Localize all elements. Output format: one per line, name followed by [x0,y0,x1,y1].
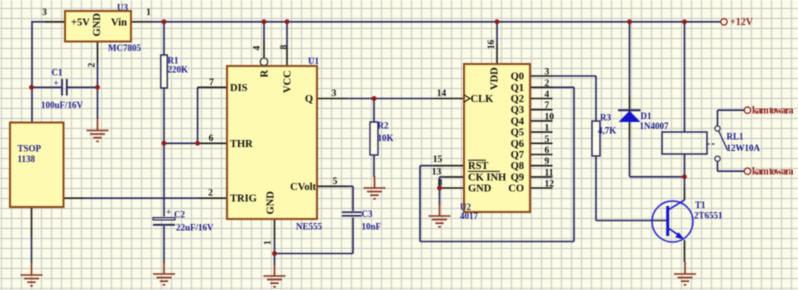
svg-text:220K: 220K [168,65,189,75]
svg-text:CLK: CLK [471,94,495,105]
svg-text:1: 1 [545,124,550,134]
svg-text:7: 7 [209,78,214,88]
svg-text:2: 2 [208,189,213,199]
svg-text:3: 3 [545,68,550,78]
svg-text:Q8: Q8 [511,161,524,172]
svg-text:5: 5 [545,135,550,145]
svg-text:kam towara: kam towara [752,106,794,117]
svg-text:7: 7 [545,101,550,111]
svg-text:16: 16 [487,40,497,50]
svg-text:C2: C2 [174,210,185,220]
svg-text:D1: D1 [641,111,652,121]
svg-text:3: 3 [42,8,47,18]
svg-text:+5V: +5V [71,18,90,29]
svg-text:CVolt: CVolt [290,182,316,193]
svg-text:CK INH: CK INH [468,172,506,183]
svg-text:NE555: NE555 [296,222,323,232]
svg-text:1: 1 [264,240,274,245]
svg-text:6: 6 [209,134,214,144]
svg-text:1138: 1138 [18,154,36,164]
svg-text:8: 8 [438,179,443,189]
svg-text:4,7K: 4,7K [598,126,616,136]
svg-text:+12V: +12V [730,17,754,28]
svg-text:Q5: Q5 [511,128,524,139]
svg-text:Q1: Q1 [511,83,524,94]
svg-text:11: 11 [545,168,554,178]
svg-text:14: 14 [437,89,447,99]
svg-text:+: + [54,78,59,88]
svg-text:GND: GND [266,191,277,215]
svg-text:15: 15 [433,155,443,165]
svg-text:T1: T1 [695,200,706,210]
svg-text:4: 4 [545,90,550,100]
svg-text:2: 2 [88,63,98,68]
svg-text:8: 8 [280,45,290,50]
svg-text:DIS: DIS [230,83,248,94]
svg-text:Vin: Vin [111,18,127,29]
svg-text:MC7805: MC7805 [108,43,141,53]
svg-text:10: 10 [545,112,555,122]
svg-text:CO: CO [508,184,524,195]
svg-text:kam towara: kam towara [752,167,794,178]
svg-text:6: 6 [545,146,550,156]
svg-text:12: 12 [545,180,555,190]
svg-text:Q0: Q0 [511,72,524,83]
svg-text:Q4: Q4 [511,116,525,127]
svg-text:GND: GND [468,184,492,195]
svg-text:VDD: VDD [490,67,501,90]
svg-text:12W10A: 12W10A [727,143,761,153]
svg-text:U1: U1 [308,56,319,66]
svg-text:GND: GND [92,13,103,37]
svg-text:VCC: VCC [283,70,294,93]
svg-text:22uF/16V: 22uF/16V [176,223,214,233]
svg-text:1N4007: 1N4007 [640,121,669,131]
svg-text:2T6551: 2T6551 [694,211,723,221]
svg-text:Q9: Q9 [511,172,524,183]
svg-text:R2: R2 [378,121,389,131]
svg-text:TSOP: TSOP [18,144,42,154]
svg-text:Q3: Q3 [511,105,524,116]
svg-text:10nF: 10nF [362,222,382,232]
svg-text:+: + [166,207,171,217]
svg-text:C3: C3 [362,209,373,219]
svg-text:Q7: Q7 [511,150,524,161]
svg-text:THR: THR [230,139,253,150]
svg-text:R: R [260,70,271,78]
svg-text:2: 2 [545,79,550,89]
svg-text:U3: U3 [117,3,128,13]
svg-text:Q: Q [305,94,313,105]
svg-text:RST: RST [468,161,488,172]
svg-text:Q2: Q2 [511,94,524,105]
svg-text:100uF/16V: 100uF/16V [41,100,84,110]
svg-text:9: 9 [545,157,550,167]
svg-text:RL1: RL1 [727,132,745,142]
svg-text:1: 1 [146,8,151,18]
svg-text:5: 5 [333,177,338,187]
svg-text:TRIG: TRIG [230,194,257,205]
svg-text:10K: 10K [378,133,394,143]
svg-text:4017: 4017 [460,211,479,221]
svg-text:3: 3 [332,89,337,99]
svg-text:R3: R3 [600,113,611,123]
svg-text:Q6: Q6 [511,139,524,150]
svg-text:13: 13 [432,167,442,177]
svg-text:C1: C1 [52,68,63,78]
svg-text:4: 4 [253,46,263,51]
